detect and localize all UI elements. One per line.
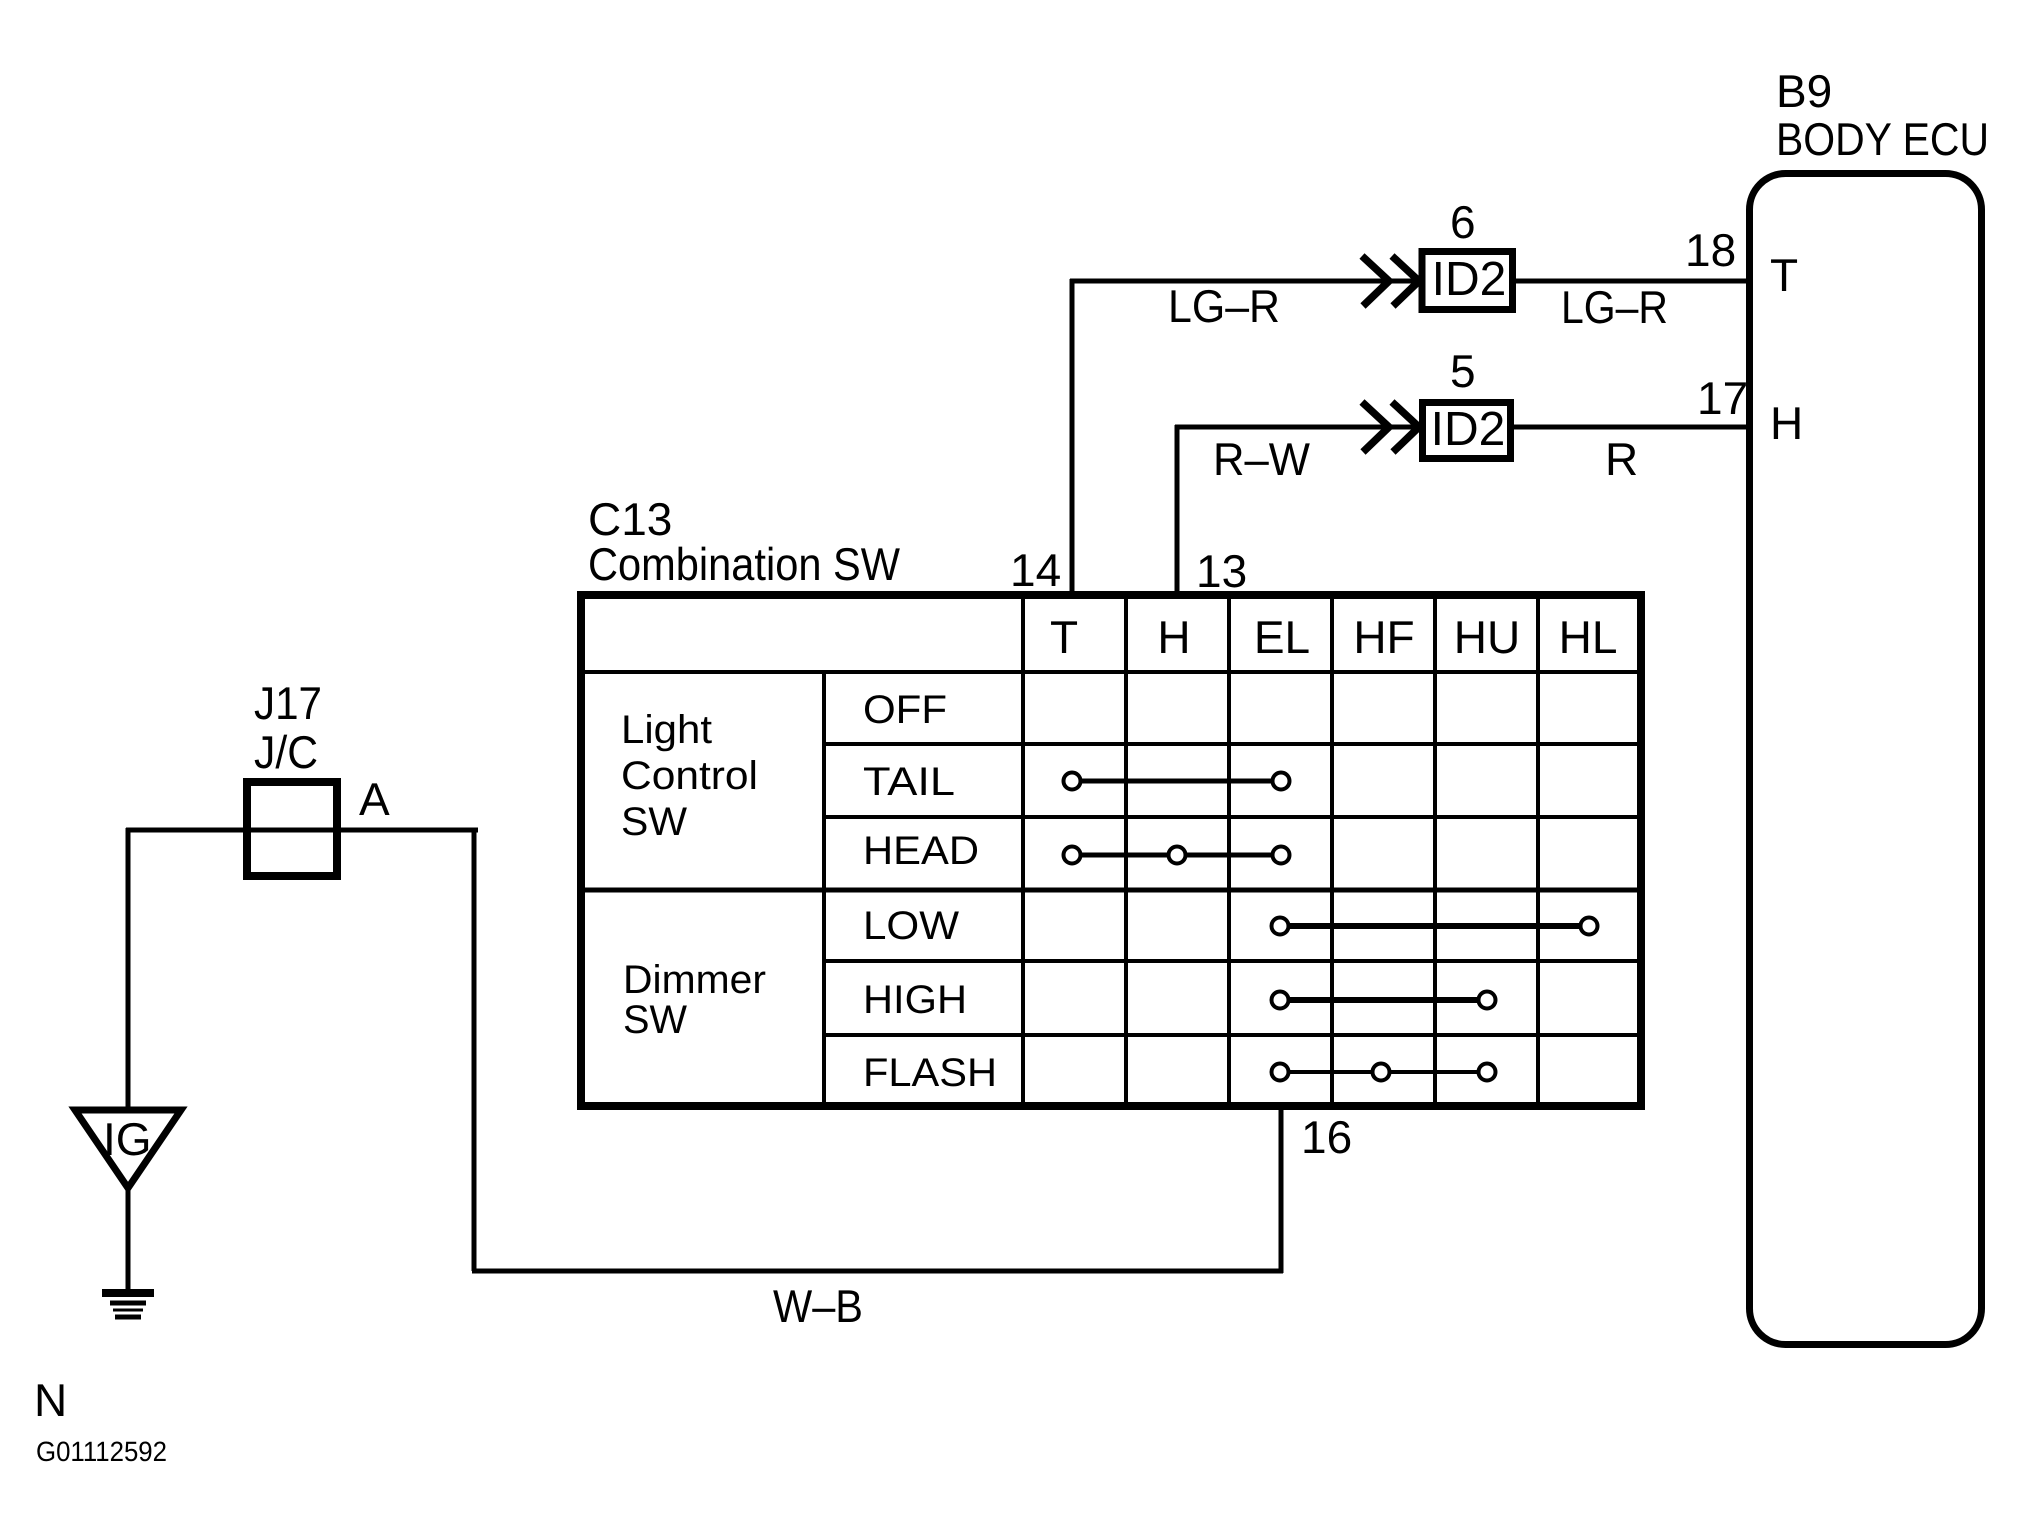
svg-text:R–W: R–W bbox=[1213, 433, 1311, 485]
svg-text:6: 6 bbox=[1450, 196, 1476, 248]
svg-text:W–B: W–B bbox=[773, 1280, 863, 1332]
svg-text:J17: J17 bbox=[254, 677, 322, 729]
svg-text:HEAD: HEAD bbox=[863, 829, 979, 873]
svg-text:B9: B9 bbox=[1776, 65, 1832, 117]
svg-text:BODY ECU: BODY ECU bbox=[1776, 113, 1989, 165]
svg-text:5: 5 bbox=[1450, 345, 1476, 397]
svg-text:SW: SW bbox=[621, 800, 687, 844]
svg-text:J/C: J/C bbox=[254, 726, 318, 778]
svg-text:T: T bbox=[1050, 611, 1078, 663]
svg-text:LOW: LOW bbox=[863, 904, 959, 948]
svg-text:18: 18 bbox=[1685, 224, 1736, 276]
svg-text:H: H bbox=[1157, 611, 1190, 663]
svg-text:IG: IG bbox=[103, 1113, 152, 1165]
svg-text:Control: Control bbox=[621, 754, 758, 798]
svg-text:T: T bbox=[1770, 249, 1798, 301]
svg-text:ID2: ID2 bbox=[1432, 253, 1507, 306]
svg-text:Combination SW: Combination SW bbox=[588, 538, 901, 590]
svg-text:ID2: ID2 bbox=[1431, 403, 1506, 456]
svg-text:FLASH: FLASH bbox=[863, 1051, 997, 1095]
svg-text:G01112592: G01112592 bbox=[36, 1436, 167, 1467]
svg-text:SW: SW bbox=[623, 998, 687, 1042]
svg-text:Dimmer: Dimmer bbox=[623, 958, 766, 1002]
svg-text:Light: Light bbox=[621, 708, 712, 752]
svg-text:LG–R: LG–R bbox=[1561, 281, 1668, 333]
svg-text:R: R bbox=[1605, 433, 1638, 485]
svg-text:TAIL: TAIL bbox=[863, 760, 955, 804]
svg-text:HF: HF bbox=[1353, 611, 1414, 663]
svg-text:HU: HU bbox=[1454, 611, 1520, 663]
svg-text:16: 16 bbox=[1301, 1111, 1352, 1163]
svg-text:EL: EL bbox=[1254, 611, 1310, 663]
svg-text:HL: HL bbox=[1559, 611, 1618, 663]
svg-text:14: 14 bbox=[1010, 544, 1061, 596]
svg-text:OFF: OFF bbox=[863, 688, 947, 732]
svg-text:A: A bbox=[359, 773, 390, 825]
svg-text:13: 13 bbox=[1196, 545, 1247, 597]
svg-text:N: N bbox=[34, 1374, 67, 1426]
svg-text:17: 17 bbox=[1697, 372, 1748, 424]
svg-text:HIGH: HIGH bbox=[863, 978, 967, 1022]
svg-text:LG–R: LG–R bbox=[1168, 280, 1280, 332]
svg-text:H: H bbox=[1770, 397, 1803, 449]
